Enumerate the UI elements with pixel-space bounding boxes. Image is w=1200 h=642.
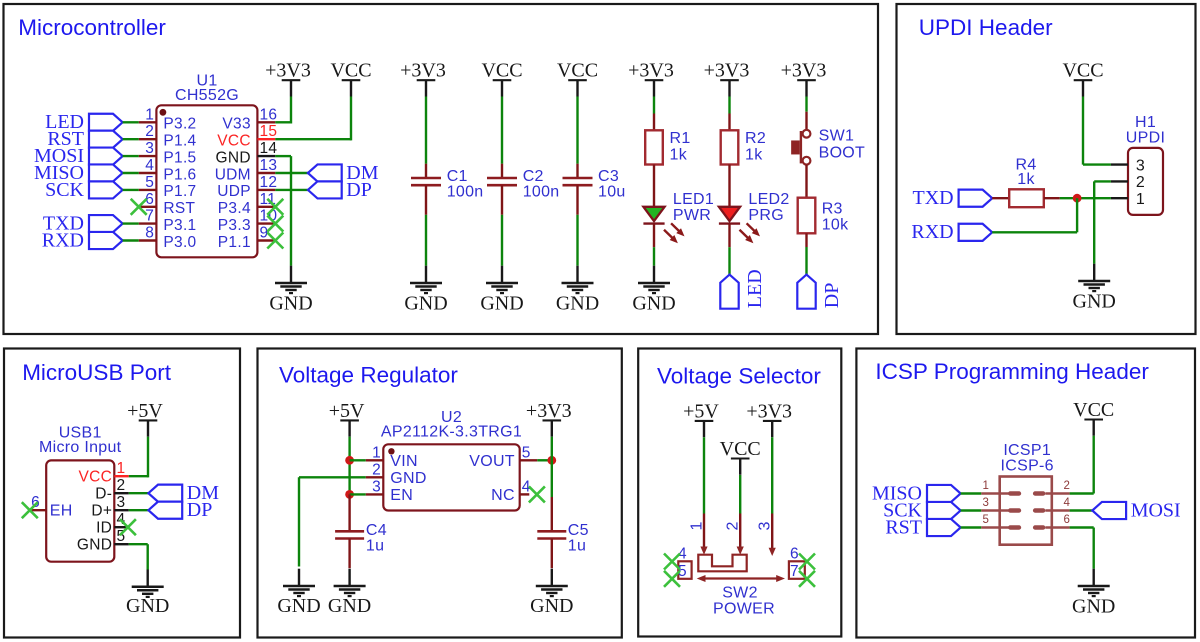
LED2 cathode lead [728, 224, 730, 248]
wire USB1 pin3 to DP [129, 509, 149, 511]
svg-text:P1.7: P1.7 [163, 183, 196, 200]
wire ICSP pin4 to MOSI [1070, 509, 1093, 511]
SW1 to R3 lead [805, 165, 807, 198]
C3 top lead [576, 164, 578, 178]
LED2 ref/name labels [748, 191, 789, 224]
capacitor C5 [537, 531, 566, 538]
USB1 pin 5 (GND) [77, 528, 129, 553]
C1 bottom lead [425, 185, 427, 215]
section title: Voltage Selector [657, 364, 821, 389]
wire MOSI to U1 [123, 155, 139, 157]
svg-text:1k: 1k [1017, 171, 1035, 188]
ICSP1 pins 1/2 [981, 480, 1070, 496]
svg-text:4: 4 [1064, 497, 1071, 509]
wire VCC to H1 pin3 [1083, 97, 1111, 165]
wire MISO to U1 [123, 172, 139, 174]
IC U2 body [383, 444, 519, 510]
svg-text:GND: GND [328, 595, 371, 617]
U2 pin 3 (EN) [366, 478, 413, 503]
svg-text:RST: RST [163, 200, 195, 217]
svg-text:EH: EH [50, 503, 73, 520]
connector H1 body [1128, 148, 1163, 215]
resistor R3 [798, 198, 816, 234]
wire U2 GND to ground [299, 477, 366, 566]
svg-text:RXD: RXD [42, 229, 84, 251]
wire H1 pin2 to GND [1094, 181, 1111, 263]
junction at +5V / VIN [345, 456, 354, 465]
C2 bottom lead [501, 185, 503, 215]
R1 top lead [653, 114, 655, 131]
svg-text:P1.4: P1.4 [163, 133, 196, 150]
no-connect X on SW2 pin 4 [664, 554, 680, 570]
section title: UPDI Header [919, 15, 1053, 40]
svg-text:P3.1: P3.1 [163, 217, 196, 234]
wire RXD to junction [992, 198, 1077, 232]
wire +5V to VIN [350, 459, 366, 461]
ground GND (C1) [404, 266, 447, 315]
SW2 slider travel arrow [697, 575, 785, 582]
wire VOUT to +3V3 [537, 459, 552, 461]
no-connect X on SW2 pin 6 [799, 554, 815, 570]
ground GND (LED1) [632, 266, 675, 315]
R2 top lead [728, 114, 730, 131]
svg-text:P1.5: P1.5 [163, 149, 196, 166]
svg-text:GND: GND [216, 149, 251, 166]
R2 to LED2 lead [728, 165, 730, 207]
svg-text:VCC: VCC [1062, 60, 1103, 82]
svg-text:2: 2 [117, 477, 126, 494]
U1 pin 15 (VCC) [217, 123, 277, 149]
wire +3V3 to SW1 [805, 97, 807, 112]
SW1 top lead [805, 112, 807, 130]
junction at VOUT / +3V3 [547, 456, 556, 465]
no-connect X on U1 pin 11 [267, 199, 283, 215]
svg-text:6: 6 [1064, 514, 1071, 526]
svg-text:R2: R2 [745, 130, 766, 147]
wire ICSP pin6 to GND [1070, 528, 1094, 569]
svg-text:VCC: VCC [557, 60, 598, 82]
svg-text:POWER: POWER [713, 601, 775, 618]
C5 ref/value labels [568, 522, 589, 555]
svg-text:VCC: VCC [720, 438, 761, 460]
SW1 ref/name labels [819, 128, 866, 162]
wire +3V3 down to C5 [551, 437, 553, 497]
U2 pin 2 (GND) [366, 461, 427, 487]
svg-text:1: 1 [1136, 191, 1145, 208]
svg-text:C5: C5 [568, 522, 589, 539]
U1 pin 12 (UDP) [217, 174, 277, 200]
svg-text:P1.6: P1.6 [163, 166, 196, 183]
C4 ref/value labels [366, 522, 387, 555]
resistor R2 [721, 130, 739, 164]
svg-text:+3V3: +3V3 [628, 60, 674, 82]
svg-text:EN: EN [390, 487, 413, 504]
svg-text:UPDI Header: UPDI Header [919, 15, 1053, 40]
C2 ref/value labels [523, 168, 560, 201]
svg-text:SW1: SW1 [819, 128, 855, 145]
svg-text:LED2: LED2 [748, 191, 789, 208]
svg-text:TXD: TXD [912, 187, 953, 209]
power +3V3 (U2) [526, 400, 572, 437]
U1 pin 5 (P1.7) [139, 174, 197, 200]
section title: ICSP Programming Header [875, 359, 1149, 384]
svg-text:GND: GND [126, 595, 169, 617]
U1 pin 8 (P3.0) [139, 225, 197, 251]
SW2 pin 1 lead with arrow [689, 514, 708, 555]
svg-text:DP: DP [187, 499, 213, 521]
svg-text:RST: RST [885, 516, 922, 538]
hierarchical label RST [47, 128, 122, 150]
capacitor C3 [563, 178, 593, 185]
svg-text:PRG: PRG [748, 207, 784, 224]
no-connect X on U2 pin 4 [529, 486, 545, 502]
svg-text:P3.4: P3.4 [218, 200, 251, 217]
wire SCK to ICSP pin3 [961, 509, 982, 511]
no-connect X on USB1 pin 4 [120, 519, 136, 535]
wire +3V3 to R1 [653, 97, 655, 114]
svg-text:3: 3 [757, 521, 774, 530]
svg-text:C1: C1 [447, 168, 468, 185]
wire R3 to DP label [805, 247, 807, 275]
ground GND (C2) [480, 266, 523, 315]
no-connect X on U1 pin 6 [131, 199, 147, 215]
no-connect X on SW2 pin 7 [799, 571, 815, 587]
svg-text:PWR: PWR [673, 207, 711, 224]
wire U1 pin13 to DM [275, 172, 308, 174]
C5 top lead [551, 497, 553, 531]
svg-text:P3.3: P3.3 [218, 217, 251, 234]
svg-text:6: 6 [790, 546, 799, 563]
SW2 pad pins 6/7 [789, 546, 805, 581]
wire VCC to C3 [576, 97, 578, 164]
wire +5V to U2 VIN [348, 437, 350, 495]
hierarchical label TXD (UPDI) [912, 187, 992, 209]
svg-text:5: 5 [983, 514, 990, 526]
hierarchical label MISO [34, 162, 123, 184]
svg-text:+5V: +5V [127, 400, 163, 422]
wire C1 to GND [425, 215, 427, 266]
U1 pin 11 (P3.4) [218, 191, 276, 217]
ground GND (USB1) [126, 570, 169, 618]
svg-text:+3V3: +3V3 [704, 60, 750, 82]
svg-text:BOOT: BOOT [819, 144, 866, 161]
power +3V3 (U1 V33) [265, 60, 311, 97]
svg-text:R3: R3 [822, 201, 843, 218]
svg-text:GND: GND [404, 292, 447, 314]
USB1 pin 3 (D+) [91, 494, 128, 519]
svg-text:7: 7 [145, 208, 154, 225]
svg-text:P3.0: P3.0 [163, 234, 196, 251]
svg-text:16: 16 [260, 106, 278, 123]
hierarchical label SCK [883, 499, 961, 521]
power +3V3 (R2) [704, 60, 750, 97]
wire RXD to U1 [123, 239, 139, 241]
svg-text:VCC: VCC [330, 60, 371, 82]
U1 pin 4 (P1.6) [139, 157, 197, 183]
section title: Microcontroller [18, 15, 166, 40]
wire U1 pin12 to DP [275, 189, 308, 191]
svg-text:3: 3 [372, 478, 381, 495]
power VCC (SW2) [720, 438, 761, 475]
wire C3 to GND [576, 215, 578, 266]
wire U1 pin15 to VCC [275, 97, 351, 141]
SW2 pin 3 lead with arrow [757, 514, 776, 557]
svg-text:GND: GND [632, 292, 675, 314]
SW2 pin 2 lead with arrow [725, 514, 744, 555]
wire RST to ICSP pin5 [961, 526, 982, 528]
svg-text:SCK: SCK [45, 179, 84, 201]
hierarchical label DP (USB) [148, 499, 212, 521]
U1 pin 6 (RST) [139, 191, 196, 217]
power VCC (U1 VCC) [330, 60, 371, 97]
wire USB1 pin5 to GND [129, 544, 148, 569]
U1 pin 1 (P3.2) [139, 106, 197, 132]
svg-text:NC: NC [491, 487, 515, 504]
wire RST to U1 [123, 138, 139, 140]
hierarchical label LED (bottom) [720, 269, 766, 308]
svg-text:CH552G: CH552G [175, 87, 239, 104]
svg-text:UPDI: UPDI [1126, 129, 1165, 146]
svg-text:GND: GND [77, 537, 112, 554]
section box: Voltage Regulator [258, 349, 622, 638]
wire +3V3 to R2 [728, 97, 730, 114]
capacitor C1 [411, 178, 441, 185]
svg-text:GND: GND [1073, 290, 1116, 312]
U1 pin 9 (P1.1) [218, 225, 275, 251]
C1 ref/value labels [447, 168, 484, 201]
svg-text:+3V3: +3V3 [526, 400, 572, 422]
H1 pin 2 [1111, 174, 1145, 191]
hierarchical label DM (USB) [148, 482, 219, 504]
svg-text:+5V: +5V [329, 400, 365, 422]
C2 top lead [501, 164, 503, 178]
R4 ref/value labels [1015, 157, 1036, 189]
USB1 reference USB1 / Micro Input [39, 425, 122, 456]
R3 bottom lead [805, 233, 807, 247]
wire LED2 to LED label [728, 247, 730, 274]
svg-text:1k: 1k [745, 147, 763, 164]
U1 pin 16 (V33) [222, 106, 277, 132]
svg-text:1u: 1u [366, 538, 384, 555]
U1 pin 13 (UDM) [215, 157, 278, 183]
power +3V3 (C1) [400, 60, 446, 97]
svg-text:+3V3: +3V3 [746, 400, 792, 422]
svg-text:2: 2 [372, 461, 381, 478]
wire TXD to U1 [123, 222, 139, 224]
ground GND (C3) [556, 266, 599, 315]
svg-text:13: 13 [260, 157, 278, 174]
resistor R4 [1009, 189, 1044, 207]
svg-text:R1: R1 [670, 130, 691, 147]
svg-text:3: 3 [145, 140, 154, 157]
U1 pin 14 (GND) [216, 140, 278, 166]
svg-text:100n: 100n [447, 184, 484, 201]
svg-text:VIN: VIN [390, 453, 418, 470]
svg-text:VOUT: VOUT [469, 453, 515, 470]
svg-text:Voltage Regulator: Voltage Regulator [279, 363, 458, 388]
svg-text:1: 1 [372, 444, 381, 461]
svg-text:SW2: SW2 [722, 585, 758, 602]
wire U1 pin14 to GND [275, 156, 291, 266]
wire LED to U1 [123, 121, 139, 123]
svg-text:D+: D+ [91, 503, 112, 520]
svg-text:4: 4 [145, 157, 154, 174]
ground GND (ICSP) [1072, 569, 1115, 618]
svg-text:2: 2 [145, 123, 154, 140]
svg-text:LED1: LED1 [673, 191, 714, 208]
svg-text:MicroUSB Port: MicroUSB Port [22, 360, 172, 385]
power VCC (C2) [481, 60, 522, 97]
power +5V (U2) [329, 400, 365, 437]
power +3V3 (SW1) [781, 60, 827, 97]
IC U1 body [156, 105, 257, 257]
svg-text:VCC: VCC [481, 60, 522, 82]
svg-text:GND: GND [269, 292, 312, 314]
hierarchical label TXD [43, 213, 123, 235]
svg-text:2: 2 [725, 521, 742, 530]
SW2 ref/name labels [713, 585, 775, 618]
power +3V3 (SW2) [746, 400, 792, 437]
wire SCK to U1 [123, 189, 139, 191]
power VCC (C3) [557, 60, 598, 97]
wire +3V3 to SW2 pin3 [771, 437, 773, 513]
hierarchical label DP [308, 179, 372, 201]
section box: UPDI Header [897, 4, 1196, 334]
SW2 pad pins 4/5 [678, 546, 692, 581]
hierarchical label MISO [872, 482, 961, 504]
U1 pin 7 (P3.1) [139, 208, 197, 234]
svg-text:14: 14 [260, 140, 278, 157]
ICSP1 pins 5/6 [981, 514, 1070, 530]
svg-text:+3V3: +3V3 [400, 60, 446, 82]
svg-text:VCC: VCC [217, 133, 251, 150]
R1 ref/value labels [670, 130, 691, 164]
hierarchical label MOSI [34, 145, 123, 167]
svg-text:+5V: +5V [683, 400, 719, 422]
U1 pin 10 (P3.3) [218, 208, 278, 234]
wire C2 to GND [501, 215, 503, 266]
svg-text:3: 3 [1136, 157, 1145, 174]
svg-text:RXD: RXD [911, 221, 953, 243]
LED LED1 (green) [643, 207, 684, 243]
U1 pin 3 (P1.5) [139, 140, 197, 166]
svg-text:UDM: UDM [215, 166, 251, 183]
R1 to LED1 lead [653, 165, 655, 207]
capacitor C2 [487, 178, 517, 185]
svg-text:VCC: VCC [79, 469, 113, 486]
hierarchical label RXD [42, 229, 123, 251]
svg-text:GND: GND [1072, 595, 1115, 617]
junction at R4 / RXD node [1073, 194, 1082, 203]
ground GND (U2 pin2) [277, 569, 320, 617]
svg-text:D-: D- [95, 486, 112, 503]
svg-text:3: 3 [983, 497, 990, 509]
USB1 pin 6 (EH) [30, 494, 73, 519]
USB1 pin 1 (VCC) [79, 460, 129, 485]
svg-text:5: 5 [145, 174, 154, 191]
svg-text:P3.2: P3.2 [163, 116, 196, 133]
section box: Voltage Selector [638, 349, 841, 637]
section box: Microcontroller [4, 4, 879, 334]
svg-text:GND: GND [530, 595, 573, 617]
section box: ICSP Programming Header [856, 349, 1195, 638]
power +3V3 (R1) [628, 60, 674, 97]
no-connect X on SW2 pin 5 [664, 571, 680, 587]
R4 left lead [992, 197, 1009, 199]
svg-text:7: 7 [790, 563, 799, 580]
svg-text:V33: V33 [222, 116, 250, 133]
svg-text:5: 5 [522, 444, 531, 461]
LED1 ref/name labels [673, 191, 714, 224]
svg-text:1k: 1k [670, 147, 688, 164]
power +5V (SW2) [683, 400, 719, 437]
svg-text:C4: C4 [366, 522, 387, 539]
push button SW1 [792, 130, 810, 165]
wire MISO to ICSP pin1 [961, 492, 982, 494]
svg-text:GND: GND [277, 595, 320, 617]
power +5V (USB1) [127, 400, 163, 437]
H1 reference H1 / UPDI [1126, 114, 1165, 146]
svg-text:ICSP Programming Header: ICSP Programming Header [875, 359, 1149, 384]
C4 top lead [348, 494, 350, 531]
svg-text:8: 8 [145, 225, 154, 242]
svg-text:P1.1: P1.1 [218, 234, 251, 251]
IC USB1 body [46, 460, 114, 561]
C5 bottom lead [551, 539, 553, 569]
svg-text:DP: DP [346, 179, 372, 201]
svg-text:10k: 10k [822, 217, 849, 234]
svg-text:12: 12 [260, 174, 278, 191]
section title: Voltage Regulator [279, 363, 458, 388]
section box: MicroUSB Port [4, 349, 240, 638]
connector ICSP1 body [1000, 477, 1052, 545]
C1 top lead [425, 164, 427, 178]
svg-text:GND: GND [556, 292, 599, 314]
ICSP1 reference ICSP1 / ICSP-6 [1001, 442, 1054, 474]
svg-text:1: 1 [983, 480, 990, 492]
svg-text:+3V3: +3V3 [265, 60, 311, 82]
wire VCC to ICSP pin2 [1070, 436, 1094, 494]
no-connect X on U1 pin 10 [267, 216, 283, 232]
section title: MicroUSB Port [22, 360, 172, 385]
resistor R1 [645, 130, 663, 164]
LED1 cathode lead [653, 224, 655, 248]
svg-text:1: 1 [689, 521, 706, 530]
svg-text:15: 15 [260, 123, 278, 140]
no-connect X on U1 pin 9 [267, 233, 283, 249]
svg-text:10u: 10u [598, 184, 626, 201]
hierarchical label MOSI [1092, 499, 1180, 521]
U2 reference U2 / AP2112K-3.3TRG1 [381, 409, 522, 440]
svg-text:Microcontroller: Microcontroller [18, 15, 166, 40]
svg-text:AP2112K-3.3TRG1: AP2112K-3.3TRG1 [381, 423, 522, 440]
svg-text:2: 2 [1064, 480, 1071, 492]
svg-text:2: 2 [1136, 174, 1145, 191]
ground GND (UPDI) [1073, 264, 1116, 313]
slide switch SW2 body [698, 555, 746, 572]
wire +5V to EN [350, 493, 366, 495]
svg-text:3: 3 [117, 494, 126, 511]
svg-text:C2: C2 [523, 168, 544, 185]
ground GND (U1) [269, 266, 312, 315]
svg-text:1: 1 [145, 106, 154, 123]
wire USB1 pin2 to DM [129, 492, 149, 494]
R4 right lead [1044, 197, 1060, 199]
C4 bottom lead [348, 539, 350, 569]
ground GND (C4) [328, 569, 371, 617]
USB1 pin 4 (ID) [96, 511, 129, 536]
hierarchical label RXD (UPDI) [911, 221, 992, 243]
